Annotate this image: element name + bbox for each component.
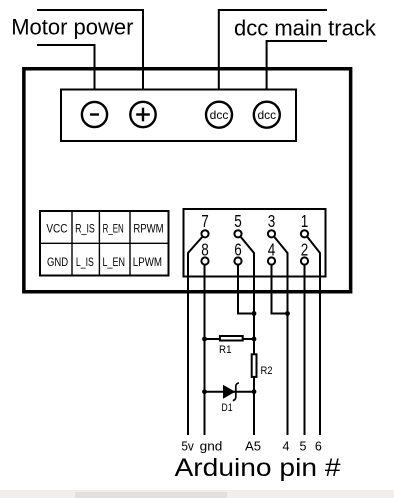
wire pin8 to gnd	[204, 265, 206, 435]
pin 2 terminal	[301, 257, 308, 264]
wire pin1 to arduino6	[307, 237, 320, 436]
wire motor power minus callout	[37, 45, 95, 102]
svg-text:R1: R1	[219, 344, 232, 356]
terminal minus	[82, 102, 107, 127]
svg-text:7: 7	[201, 211, 209, 231]
wire pin7 to 5v	[188, 237, 203, 436]
resistor R2	[252, 354, 257, 377]
pin 6 terminal	[234, 257, 241, 264]
pin 5 terminal	[234, 230, 241, 237]
pin label table	[40, 211, 169, 276]
pin 4 terminal	[268, 257, 275, 264]
wire pin3 to arduino4	[274, 237, 288, 436]
svg-text:L_IS: L_IS	[76, 255, 94, 269]
svg-text:dcc main track: dcc main track	[234, 16, 377, 41]
svg-text:dcc: dcc	[210, 108, 229, 122]
wire pin4 jog	[272, 265, 288, 314]
junction pin4/pin3	[285, 311, 290, 316]
svg-text:Arduino pin #: Arduino pin #	[175, 454, 341, 482]
junction R1 right	[252, 337, 257, 342]
junction R1 left	[202, 337, 207, 342]
svg-text:gnd: gnd	[200, 440, 223, 454]
svg-text:RPWM: RPWM	[133, 222, 163, 236]
svg-text:5v: 5v	[181, 440, 194, 454]
scrollbar track	[0, 490, 394, 498]
board outline	[24, 69, 351, 292]
connector box	[184, 209, 326, 277]
svg-text:5: 5	[234, 211, 242, 231]
pin 8 terminal	[201, 257, 208, 264]
svg-text:Motor power: Motor power	[11, 15, 133, 40]
terminal dcc 2	[254, 102, 280, 128]
svg-text:4: 4	[283, 440, 290, 454]
svg-text:5: 5	[300, 440, 307, 454]
wire dcc right callout	[267, 41, 327, 102]
diode D1	[223, 383, 239, 401]
wire D1 branch	[205, 391, 255, 393]
resistor R1	[220, 336, 243, 341]
svg-text:R2: R2	[260, 365, 272, 377]
wire motor power plus callout	[37, 10, 143, 102]
svg-text:3: 3	[268, 211, 276, 231]
svg-text:D1: D1	[221, 402, 232, 414]
pin 3 terminal	[268, 230, 275, 237]
svg-text:6: 6	[315, 440, 322, 454]
terminal plus	[130, 102, 155, 127]
svg-text:R_EN: R_EN	[103, 222, 124, 236]
svg-text:dcc: dcc	[257, 108, 276, 122]
svg-text:L_EN: L_EN	[103, 255, 126, 269]
terminal block outline	[61, 90, 296, 142]
terminal dcc 1	[206, 102, 232, 128]
pin 1 terminal	[301, 230, 308, 237]
svg-text:GND: GND	[47, 255, 68, 269]
junction D1 left	[202, 389, 207, 394]
wire dcc left callout	[219, 10, 327, 102]
pin 7 terminal	[201, 230, 208, 237]
svg-text:R_IS: R_IS	[75, 222, 95, 236]
svg-text:LPWM: LPWM	[133, 255, 162, 269]
wire pin2 to arduino5	[304, 265, 306, 435]
wire pin5 to A5	[240, 237, 254, 436]
scrollbar thumb	[75, 492, 227, 498]
junction pin6/pin5	[252, 311, 257, 316]
svg-text:VCC: VCC	[46, 222, 67, 236]
wire pin6 jog to A5	[238, 265, 254, 314]
svg-text:1: 1	[301, 211, 309, 231]
svg-text:A5: A5	[245, 440, 261, 454]
wire R1 branch	[205, 338, 255, 340]
junction D1 right	[252, 389, 257, 394]
